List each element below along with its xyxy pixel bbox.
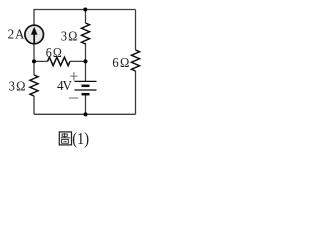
- svg-text:2A: 2A: [8, 26, 25, 42]
- svg-text:3Ω: 3Ω: [61, 28, 78, 44]
- wire middle branch lower: [85, 94, 87, 114]
- svg-text:6Ω: 6Ω: [46, 44, 62, 60]
- wire top: [34, 10, 136, 25]
- current source 2A: [25, 25, 44, 44]
- junction node top: [83, 8, 87, 12]
- label + polarity: [70, 72, 77, 81]
- battery 4V: [75, 81, 97, 94]
- junction node left: [32, 59, 36, 63]
- resistor 3ohm middle: [82, 23, 90, 44]
- wire horizontal 6ohm branch: [34, 60, 86, 62]
- svg-text:4V: 4V: [57, 77, 72, 92]
- wire bottom: [34, 113, 136, 115]
- svg-text:(1): (1): [72, 130, 89, 148]
- wire left lower: [33, 96, 35, 114]
- junction node bottom: [84, 112, 88, 116]
- resistor 6ohm horizontal: [48, 57, 71, 65]
- caption glyph 圖: [59, 132, 71, 145]
- resistor 6ohm right: [132, 50, 140, 71]
- wire middle branch upper: [85, 10, 87, 24]
- resistor 3ohm left: [30, 75, 38, 96]
- svg-text:6Ω: 6Ω: [112, 54, 129, 70]
- svg-text:3Ω: 3Ω: [9, 78, 26, 94]
- wire middle branch mid: [85, 43, 87, 81]
- wire right upper: [135, 10, 137, 51]
- junction node middle: [84, 59, 88, 63]
- wire left middle: [33, 44, 35, 75]
- label - polarity: [69, 97, 78, 99]
- wire right lower: [135, 71, 137, 114]
